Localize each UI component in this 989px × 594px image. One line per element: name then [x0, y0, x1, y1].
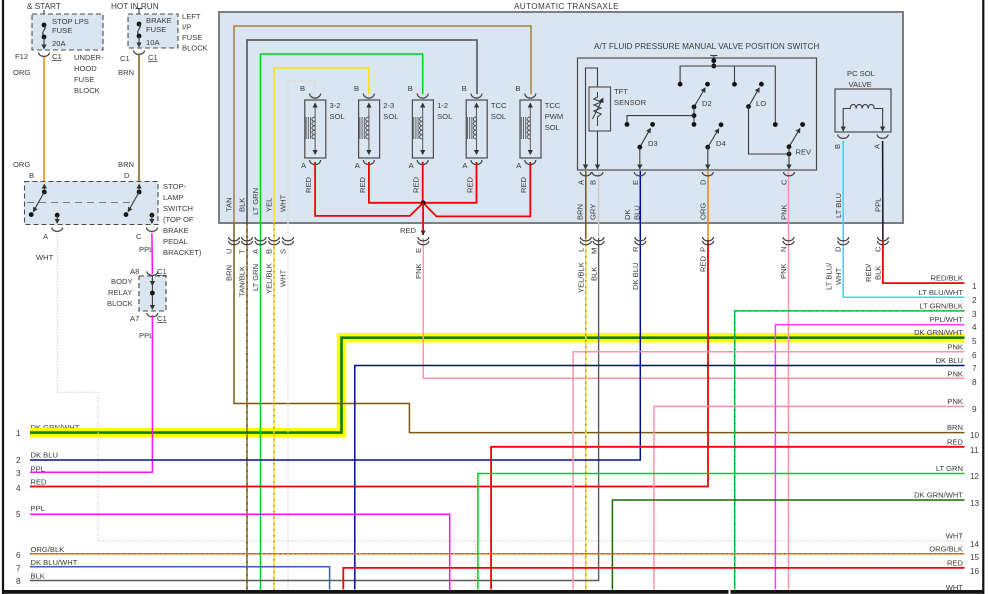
connector L [580, 237, 591, 245]
svg-text:A: A [251, 248, 260, 254]
svg-text:STOP-: STOP- [163, 182, 187, 191]
stop-lamp switch box [25, 182, 159, 225]
TFT thermistor [594, 92, 601, 126]
TFT sensor loop wire A [586, 68, 598, 169]
svg-text:PPL: PPL [31, 504, 45, 513]
svg-text:PNK: PNK [947, 397, 963, 406]
svg-text:C1: C1 [52, 52, 62, 61]
stop-lamp switch divider [27, 202, 131, 204]
svg-text:FUSE: FUSE [74, 75, 94, 84]
fuse block STOP LPS box [43, 10, 45, 14]
svg-text:12: 12 [970, 472, 980, 481]
svg-text:F12: F12 [15, 52, 28, 61]
svg-text:BLU: BLU [633, 205, 642, 220]
connector P [703, 237, 714, 245]
svg-text:DK BLU: DK BLU [631, 263, 640, 290]
svg-text:SOL: SOL [545, 123, 560, 132]
wire PPL/WHT right 4 [775, 325, 964, 590]
svg-text:13: 13 [970, 499, 980, 508]
connector A1 [580, 172, 591, 176]
connector B1 [592, 172, 603, 176]
svg-text:P: P [699, 247, 708, 252]
connector PC SOL B [838, 135, 849, 139]
svg-text:SWITCH: SWITCH [163, 204, 193, 213]
svg-text:BLOCK: BLOCK [74, 86, 100, 95]
svg-text:TCC: TCC [491, 101, 507, 110]
wire bus drop [734, 66, 736, 84]
svg-text:WHT: WHT [834, 267, 843, 285]
wire LT BLU D to right edge 2 [843, 141, 964, 297]
right page border [982, 0, 984, 594]
svg-text:1: 1 [16, 429, 21, 438]
svg-text:T: T [238, 249, 247, 254]
svg-text:D: D [124, 171, 130, 180]
bottom crop bar [2, 590, 729, 594]
svg-text:RELAY: RELAY [108, 288, 132, 297]
svg-text:ORG/BLK: ORG/BLK [929, 544, 963, 553]
svg-text:B: B [515, 84, 520, 93]
svg-text:RED: RED [400, 226, 417, 235]
svg-text:HOOD: HOOD [74, 64, 97, 73]
svg-text:14: 14 [970, 540, 980, 549]
wire WHT S down [287, 223, 289, 592]
svg-text:DK BLU: DK BLU [936, 356, 963, 365]
svg-text:PPL: PPL [139, 331, 153, 340]
svg-text:ORG: ORG [13, 68, 30, 77]
svg-text:LO: LO [756, 99, 766, 108]
svg-text:D2: D2 [702, 99, 712, 108]
svg-text:RED: RED [31, 478, 48, 487]
connector D1 [702, 172, 713, 176]
connector U [229, 237, 240, 245]
wire PPL left 5 [30, 514, 450, 590]
svg-text:FUSE: FUSE [52, 26, 72, 35]
wire RED junction to connector E [422, 203, 424, 235]
svg-text:WHT: WHT [36, 253, 54, 262]
svg-text:4: 4 [16, 484, 21, 493]
connector body relay bottom [147, 313, 158, 317]
svg-text:6: 6 [16, 551, 21, 560]
connector S [283, 237, 294, 245]
svg-text:TCC: TCC [545, 101, 561, 110]
svg-text:E: E [631, 180, 640, 185]
svg-text:FUSE: FUSE [146, 25, 166, 34]
svg-text:PWM: PWM [545, 112, 564, 121]
connector C1s [784, 172, 795, 176]
wire PNK right 9 [654, 406, 965, 589]
wire DK BLU/WHT left 7 [30, 567, 330, 590]
svg-text:U: U [225, 249, 234, 254]
svg-text:YEL/BLK: YEL/BLK [576, 262, 585, 293]
svg-text:B: B [833, 144, 842, 149]
svg-text:LEFT: LEFT [182, 12, 201, 21]
wire ORG fuse to stop-lamp B [43, 57, 45, 182]
svg-text:RED/BLK: RED/BLK [931, 274, 964, 283]
wire YEL horizontal feed [274, 68, 369, 223]
wire LT GRN/BLK right 3 [735, 311, 965, 590]
switch LO [759, 82, 764, 87]
svg-text:TFT: TFT [614, 87, 628, 96]
svg-text:B: B [462, 84, 467, 93]
svg-text:S: S [279, 249, 288, 254]
svg-text:L: L [576, 248, 585, 252]
connector PC SOL A [877, 135, 888, 139]
svg-text:PPL: PPL [874, 198, 883, 212]
svg-text:& START: & START [27, 2, 61, 11]
wire PNK N from REV down [788, 171, 790, 590]
automatic transaxle enclosure [219, 12, 903, 223]
svg-text:C: C [780, 179, 789, 185]
svg-text:SOL: SOL [330, 112, 345, 121]
wire WHT stop-lamp A to right edge 14 [58, 233, 965, 541]
svg-text:C1: C1 [157, 314, 167, 323]
svg-text:REV: REV [796, 148, 813, 157]
svg-text:B: B [29, 171, 34, 180]
fuse STOP LPS 20A [42, 23, 47, 28]
connector C1 under fuse 1 [39, 53, 50, 57]
switch D3 [650, 122, 655, 127]
wire BLK M down from B [30, 238, 599, 581]
svg-text:B: B [300, 84, 305, 93]
wire DK GRN/WHT highlighted thick [30, 338, 965, 433]
wire WHT horizontal feed [288, 81, 315, 223]
svg-text:AUTOMATIC TRANSAXLE: AUTOMATIC TRANSAXLE [514, 2, 619, 11]
body relay pass-through [151, 276, 153, 308]
svg-text:BODY: BODY [111, 277, 133, 286]
svg-text:RED: RED [947, 558, 964, 567]
svg-text:B: B [265, 249, 274, 254]
wire DK BLU R from D3 to left edge 2 [30, 171, 640, 460]
svg-text:BRN: BRN [118, 68, 134, 77]
svg-text:RED: RED [465, 176, 474, 193]
svg-text:TAN/BLK: TAN/BLK [238, 266, 247, 297]
svg-text:6: 6 [972, 351, 977, 360]
node RED junction [421, 200, 426, 205]
svg-text:HOT IN RUN: HOT IN RUN [111, 2, 159, 11]
svg-text:1: 1 [972, 282, 977, 291]
svg-text:RED: RED [947, 437, 964, 446]
svg-text:PNK: PNK [779, 263, 788, 279]
svg-text:WHT: WHT [946, 531, 964, 540]
wire BRN U to right edge 10 [234, 223, 965, 433]
svg-text:YEL: YEL [265, 198, 274, 212]
svg-text:B: B [408, 84, 413, 93]
svg-text:LT GRN: LT GRN [251, 188, 260, 215]
svg-text:PEDAL: PEDAL [163, 237, 188, 246]
wire GRY from switch B [598, 171, 600, 238]
wire PNK right 6 [573, 352, 964, 590]
svg-text:D3: D3 [648, 139, 658, 148]
svg-text:PC SOL: PC SOL [847, 69, 875, 78]
connector M [593, 237, 604, 245]
svg-text:VALVE: VALVE [849, 80, 872, 89]
connector R [635, 237, 646, 245]
wire RED right 16 [343, 568, 964, 590]
svg-text:2: 2 [16, 456, 21, 465]
svg-text:BRACKET): BRACKET) [163, 248, 202, 257]
connector stop-lamp A [52, 228, 63, 232]
svg-text:C: C [873, 246, 882, 252]
connector N [783, 237, 794, 245]
fuse block BRAKE box [138, 8, 140, 14]
svg-text:RED: RED [412, 176, 421, 193]
svg-text:BRN: BRN [225, 265, 234, 281]
wire RED from 3-2 SOL A [315, 162, 423, 216]
svg-text:ORG: ORG [13, 160, 30, 169]
wire RED from 2-3 SOL A [369, 162, 423, 203]
body relay block box [139, 276, 166, 311]
svg-text:BLK: BLK [238, 198, 247, 212]
wire TAN horizontal feed [234, 26, 531, 223]
connector E2 [418, 237, 429, 245]
svg-text:E: E [414, 248, 423, 253]
svg-text:C1: C1 [120, 54, 130, 63]
connector body relay top [147, 272, 158, 276]
svg-text:5: 5 [972, 337, 977, 346]
switch REV [800, 122, 805, 127]
svg-text:16: 16 [970, 567, 980, 576]
svg-text:LT GRN: LT GRN [251, 264, 260, 291]
svg-text:2-3: 2-3 [383, 101, 394, 110]
svg-text:D: D [699, 179, 708, 185]
svg-text:C: C [136, 232, 142, 241]
svg-text:BRAKE: BRAKE [163, 226, 189, 235]
stop-lamp switch pole D [138, 186, 140, 192]
wire switch bus [680, 66, 775, 125]
stop-lamp switch pole B [43, 186, 45, 192]
svg-text:LT GRN: LT GRN [936, 464, 963, 473]
svg-text:BLOCK: BLOCK [182, 44, 208, 53]
wire RED P to left edge 4 [30, 240, 708, 487]
svg-text:BRN: BRN [575, 204, 584, 220]
svg-text:BRN: BRN [118, 160, 134, 169]
svg-text:3: 3 [16, 469, 21, 478]
svg-text:R: R [631, 246, 640, 252]
wire PPL C from PC SOL A [882, 141, 884, 240]
svg-text:DK GRN/WHT: DK GRN/WHT [914, 491, 963, 500]
svg-text:YEL/BLK: YEL/BLK [265, 263, 274, 294]
wire DK BLU right 7 [355, 366, 965, 590]
svg-text:10: 10 [970, 431, 980, 440]
svg-text:C1: C1 [148, 53, 158, 62]
svg-text:DK BLU/WHT: DK BLU/WHT [31, 558, 78, 567]
svg-text:RED: RED [519, 176, 528, 193]
solenoid 1-2 SOL [412, 94, 433, 165]
wire DK GRN/WHT right 13 [612, 500, 964, 590]
wire D3 feed [627, 116, 694, 125]
svg-text:RED: RED [699, 255, 708, 272]
wire PPL relay to row3 [30, 315, 152, 472]
svg-text:LT BLU: LT BLU [834, 193, 843, 218]
svg-text:(TOP OF: (TOP OF [163, 215, 194, 224]
svg-text:4: 4 [972, 323, 977, 332]
svg-text:C1: C1 [157, 267, 167, 276]
wire PNK E to right edge 8 [423, 238, 964, 378]
svg-text:5: 5 [16, 510, 21, 519]
svg-text:FUSE: FUSE [182, 33, 202, 42]
svg-text:LAMP: LAMP [163, 193, 184, 202]
svg-text:8: 8 [16, 577, 21, 586]
svg-text:DK: DK [623, 209, 632, 220]
svg-text:BRAKE: BRAKE [146, 16, 172, 25]
svg-text:RED: RED [304, 176, 313, 193]
wire ORG D from D4 [707, 171, 709, 240]
svg-text:BLK: BLK [589, 267, 598, 281]
svg-text:SOL: SOL [491, 112, 506, 121]
PC SOL coil [843, 104, 882, 131]
svg-text:LT BLU/: LT BLU/ [825, 262, 834, 290]
connector A2 [255, 237, 266, 245]
svg-text:PNK: PNK [947, 342, 963, 351]
connector E1 [634, 172, 645, 176]
svg-text:ORG/BLK: ORG/BLK [31, 545, 65, 554]
wire ORG/BLK row 6-15 [30, 553, 965, 555]
A/T fluid pressure manual valve position switch box [578, 58, 817, 170]
svg-text:A8: A8 [130, 267, 139, 276]
svg-text:BLOCK: BLOCK [107, 299, 133, 308]
wire WHT branch down [474, 541, 476, 590]
svg-text:7: 7 [16, 564, 21, 573]
svg-text:11: 11 [970, 446, 979, 455]
wire BLK horizontal feed [247, 40, 477, 223]
svg-text:SOL: SOL [383, 112, 398, 121]
node bus drop contacts [678, 82, 683, 87]
wire LT GRN horizontal feed [261, 54, 423, 223]
svg-text:STOP LPS: STOP LPS [52, 17, 89, 26]
svg-text:A7: A7 [130, 314, 139, 323]
connector C2c [877, 237, 888, 245]
svg-text:7: 7 [972, 364, 977, 373]
wire D4 to D exit [707, 147, 709, 169]
svg-text:BLK: BLK [31, 572, 45, 581]
PC SOL VALVE box [835, 89, 891, 132]
wire BRN fuse to stop-lamp D [138, 55, 140, 182]
svg-text:B: B [354, 84, 359, 93]
left page border [2, 0, 4, 594]
svg-text:1-2: 1-2 [437, 101, 448, 110]
svg-text:PPL/WHT: PPL/WHT [929, 315, 963, 324]
svg-text:WHT: WHT [279, 194, 288, 212]
wire PPL stop-lamp C to relay [151, 233, 154, 274]
wire RED from TCC PWM SOL A [423, 162, 530, 216]
solenoid TCC PWM SOL [520, 94, 541, 165]
wire RED from 1-2 SOL A [422, 162, 424, 203]
svg-text:SOL: SOL [437, 112, 452, 121]
svg-text:DK BLU: DK BLU [31, 451, 58, 460]
svg-text:WHT: WHT [279, 269, 288, 287]
svg-text:GRY: GRY [589, 204, 598, 220]
svg-text:D: D [834, 246, 843, 252]
svg-text:3-2: 3-2 [330, 101, 341, 110]
svg-text:PPL: PPL [139, 245, 153, 254]
switch common stub [710, 55, 717, 57]
wire YEL/BLK B down [273, 223, 275, 592]
TFT sensor box [589, 87, 611, 131]
svg-text:N: N [779, 247, 788, 252]
wire BRN from switch A [585, 171, 587, 238]
svg-text:BRN: BRN [947, 423, 963, 432]
svg-text:D4: D4 [716, 139, 726, 148]
wire RED from TCC SOL A [423, 162, 476, 203]
wire TAN/BLK T down [246, 223, 248, 592]
svg-text:A: A [43, 232, 49, 241]
svg-text:ORG: ORG [699, 203, 708, 220]
connector D2c [838, 237, 849, 245]
fuse BRAKE 10A [137, 22, 142, 27]
switch D4 [719, 122, 724, 127]
connector T [242, 237, 253, 245]
connector C1 under fuse 2 [134, 51, 145, 55]
wire LO to REV [749, 107, 790, 154]
wire LT GRN A down [260, 223, 262, 592]
svg-text:DK GRN/WHT: DK GRN/WHT [914, 328, 963, 337]
svg-text:M: M [589, 248, 598, 254]
svg-text:9: 9 [972, 405, 977, 414]
svg-text:3: 3 [972, 310, 977, 319]
svg-text:10A: 10A [146, 38, 160, 47]
svg-text:LT GRN/BLK: LT GRN/BLK [919, 301, 963, 310]
svg-text:15: 15 [970, 553, 980, 562]
svg-text:BLK: BLK [874, 266, 883, 280]
svg-text:B: B [589, 180, 598, 185]
svg-text:PNK: PNK [414, 263, 423, 279]
svg-text:A/T FLUID PRESSURE MANUAL VALV: A/T FLUID PRESSURE MANUAL VALVE POSITION… [594, 42, 819, 51]
svg-text:RED/: RED/ [864, 263, 873, 282]
wire RED/BLK to right edge 1 [883, 240, 965, 283]
svg-text:PPL: PPL [31, 464, 45, 473]
svg-text:8: 8 [972, 378, 977, 387]
svg-text:UNDER-: UNDER- [74, 53, 104, 62]
switch D2 [705, 82, 710, 87]
svg-text:TAN: TAN [225, 197, 234, 212]
solenoid 2-3 SOL [359, 94, 380, 165]
svg-text:RED: RED [358, 176, 367, 193]
wire YEL/BLK L down from A [585, 238, 587, 592]
wire REV to C exit [788, 154, 790, 169]
svg-text:LT BLU/WHT: LT BLU/WHT [919, 288, 964, 297]
solenoid TCC SOL [466, 94, 487, 165]
svg-text:2: 2 [972, 296, 977, 305]
svg-text:PNK: PNK [780, 204, 789, 220]
solenoid 3-2 SOL [305, 94, 326, 165]
connector B2 [269, 237, 280, 245]
node D2 pivot chain [693, 107, 695, 125]
svg-text:20A: 20A [52, 39, 66, 48]
wire D3 to E exit [639, 147, 641, 169]
svg-text:I/P: I/P [182, 23, 191, 32]
svg-text:PNK: PNK [947, 370, 963, 379]
wire RED right 11 [491, 447, 964, 590]
wire LT GRN right 12 [478, 474, 965, 590]
svg-text:SENSOR: SENSOR [614, 98, 647, 107]
connector stop-lamp C [146, 228, 157, 232]
